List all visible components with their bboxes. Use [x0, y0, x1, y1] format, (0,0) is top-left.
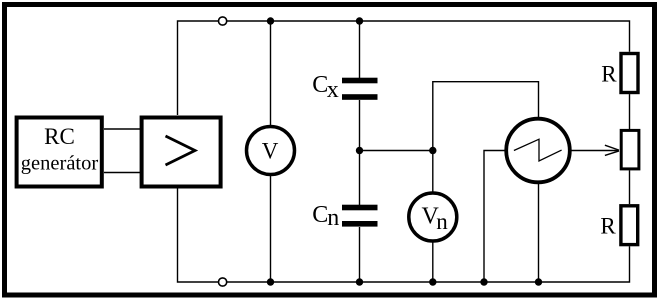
wire Cx top — [359, 21, 361, 78]
junction bottom bus / scope left branch — [480, 278, 487, 285]
wire node A to node B — [360, 150, 433, 152]
svg-text:x: x — [327, 77, 339, 103]
sawtooth scope G1 — [506, 119, 570, 183]
wire bottom bus — [178, 189, 630, 283]
voltmeter V — [247, 127, 295, 175]
node A junction Cx-Cn — [356, 147, 363, 154]
node B junction — [429, 147, 436, 154]
wire between P1 and R2 — [629, 170, 631, 204]
junction top bus / Cx — [356, 17, 363, 24]
junction top bus / V meter — [267, 17, 274, 24]
RC generator box — [17, 118, 102, 187]
wire between R1 and P1 — [629, 94, 631, 129]
svg-text:C: C — [312, 202, 328, 228]
terminal bottom (open circle) — [219, 278, 227, 286]
svg-text:n: n — [327, 205, 339, 231]
svg-text:R: R — [600, 213, 616, 238]
amplifier U1 — [142, 118, 221, 187]
terminal top (open circle) — [219, 17, 227, 25]
svg-text:generátor: generátor — [21, 152, 99, 174]
svg-text:n: n — [436, 209, 448, 234]
potentiometer P1 — [621, 130, 639, 169]
wire node B to scope top — [433, 82, 539, 151]
wire V meter bottom — [270, 176, 272, 282]
wire Cn bottom — [359, 227, 361, 282]
wire Cx to node A — [359, 100, 361, 151]
capacitor Cx — [312, 72, 377, 103]
junction bottom bus / Vn — [429, 278, 436, 285]
capacitor Cn — [312, 202, 377, 231]
wire node A to Cn — [359, 151, 361, 206]
svg-text:RC: RC — [44, 124, 75, 149]
wire scope left to bottom bus — [484, 151, 505, 283]
svg-text:R: R — [601, 62, 617, 87]
wire scope bottom — [538, 184, 540, 282]
wire Vn bottom — [432, 243, 434, 283]
junction bottom bus / V meter — [267, 278, 274, 285]
wire top bus — [178, 21, 630, 115]
wire RC to amp upper — [104, 128, 140, 130]
resistor R1 (top) — [601, 54, 638, 93]
junction bottom bus / scope bottom — [535, 278, 542, 285]
arrowhead of wiper — [605, 145, 619, 155]
voltmeter Vn — [409, 193, 457, 241]
wire scope right to potentiometer wiper — [572, 150, 619, 152]
junction bottom bus / Cn — [356, 278, 363, 285]
wire node B to Vn — [432, 151, 434, 193]
svg-text:V: V — [262, 139, 279, 164]
wire V meter top — [270, 21, 272, 125]
wire RC to amp lower — [104, 172, 140, 174]
resistor R2 (bottom) — [600, 206, 637, 245]
